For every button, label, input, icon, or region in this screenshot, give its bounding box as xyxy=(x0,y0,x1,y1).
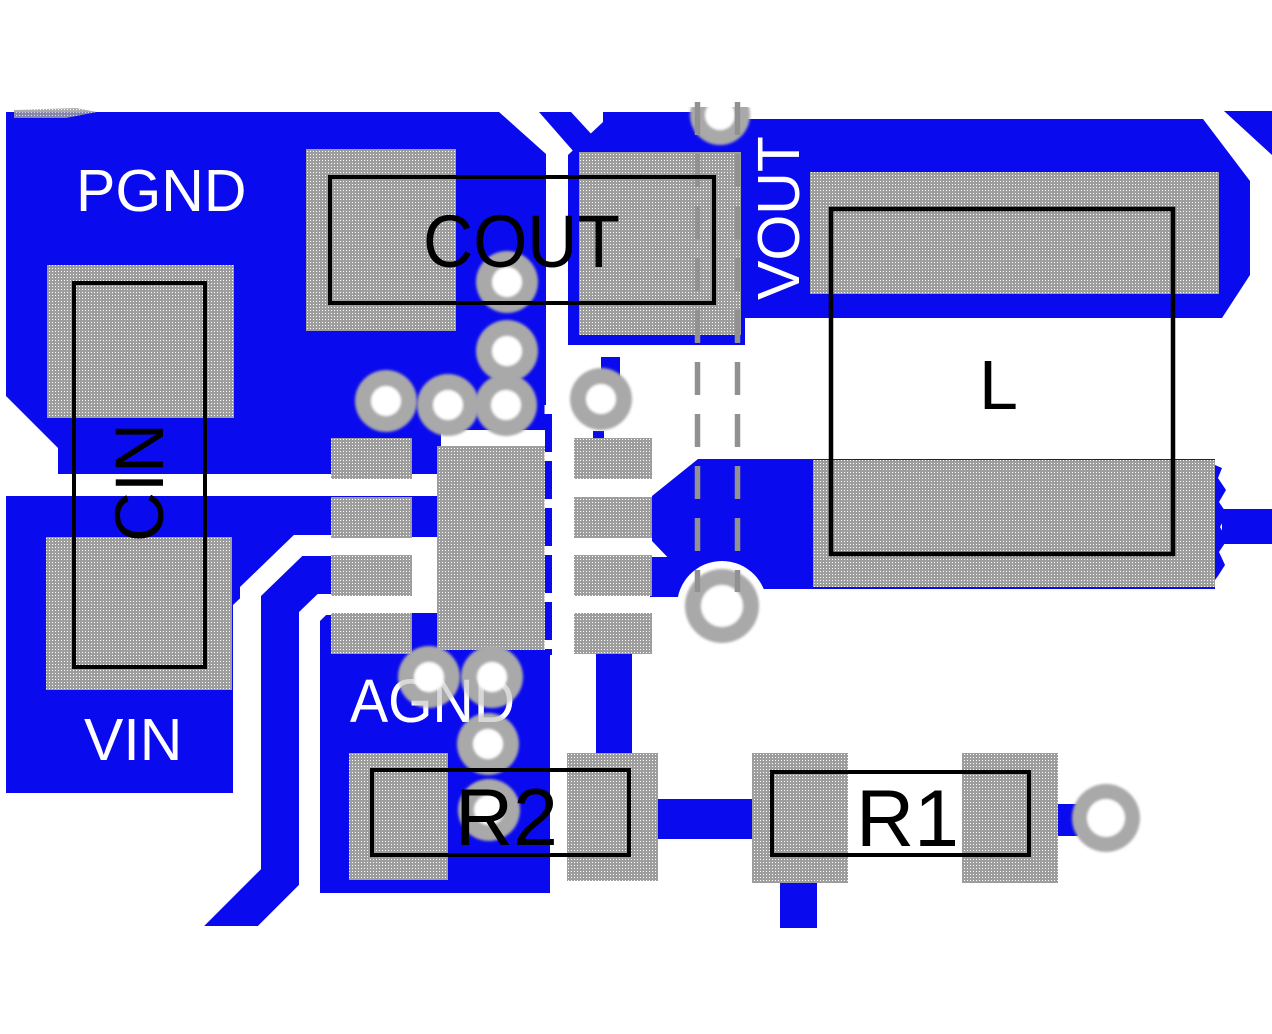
via at inductor xyxy=(685,569,759,643)
trim of VIN trace stub xyxy=(150,926,340,1026)
copper region VOUT to L bottom pad xyxy=(652,459,740,589)
via trio left xyxy=(355,370,417,432)
svg-text:R1: R1 xyxy=(856,774,959,864)
via right of IC xyxy=(570,368,632,430)
wire: mid strip right of IC center pad xyxy=(545,408,552,655)
IC U1 center thermal pad xyxy=(437,446,545,650)
resistor R2 pad right xyxy=(567,753,658,881)
wire: small stub near via V7 xyxy=(601,357,620,380)
inductor L pad bottom xyxy=(813,460,1215,587)
via trio mid xyxy=(417,374,479,436)
copper band under L bottom pad xyxy=(738,459,1215,589)
copper blob behind top via xyxy=(700,106,745,158)
svg-text:PGND: PGND xyxy=(76,158,246,224)
resistor R2 pad left xyxy=(349,753,448,880)
wire: small stub below via V7 xyxy=(593,431,604,441)
resistor R1 outline xyxy=(772,772,1029,855)
copper pour VOUT band (top-right) xyxy=(742,119,1250,318)
via AGND pair left xyxy=(398,646,460,708)
IC U1 pad left row2 xyxy=(331,497,412,538)
copper pour VIN (lower-left) xyxy=(6,485,441,793)
capacitor CIN pad upper xyxy=(47,265,234,418)
teeth on L bottom pad right edge xyxy=(1215,465,1227,580)
resistor R1 pad left xyxy=(752,753,848,883)
svg-text:AGND: AGND xyxy=(350,667,515,735)
svg-text:VOUT: VOUT xyxy=(746,136,812,300)
capacitor CIN pad lower xyxy=(46,537,232,690)
wire: L bottom pad stub to right edge xyxy=(1222,509,1272,544)
pad sliver top-left edge xyxy=(14,108,97,118)
dashed annotation line left xyxy=(695,102,701,592)
via AGND pair right xyxy=(461,646,523,708)
clearance gap IC rows 2-3 xyxy=(412,537,441,555)
via trio right xyxy=(475,374,537,436)
svg-text:VIN: VIN xyxy=(84,707,182,773)
capacitor COUT pad left xyxy=(306,149,456,331)
clearance circle around inductor via xyxy=(677,561,767,651)
capacitor CIN outline xyxy=(74,283,205,667)
wire: R1 right pad to via xyxy=(1058,804,1078,836)
clearance channel CIN gap xyxy=(0,474,441,496)
via chain upper 1 xyxy=(476,251,538,313)
svg-text:COUT: COUT xyxy=(423,200,620,283)
IC U1 pad left row1 xyxy=(331,438,412,479)
wire: IC row4 to R2 right pad xyxy=(596,651,632,759)
via AGND lower 1 xyxy=(457,713,519,775)
via right of R1 xyxy=(1072,784,1140,852)
svg-text:L: L xyxy=(979,346,1018,424)
svg-text:CIN: CIN xyxy=(101,423,178,542)
capacitor COUT outline xyxy=(330,177,714,303)
IC U1 pad right row1 xyxy=(574,438,652,479)
inductor L outline xyxy=(831,209,1173,554)
svg-text:R2: R2 xyxy=(455,773,558,863)
IC U1 pad right row4 xyxy=(574,613,652,654)
copper pour PGND (top-left) xyxy=(6,112,546,485)
wire: R2 to R1 xyxy=(658,799,754,839)
copper pour AGND column 2 xyxy=(412,613,437,658)
dashed annotation line right xyxy=(735,102,741,592)
via top near VOUT xyxy=(690,85,750,145)
copper pour AGND xyxy=(316,597,332,657)
IC U1 pad right row2 xyxy=(574,497,652,538)
wire: R1 left pad stub down xyxy=(780,883,817,928)
capacitor COUT pad right xyxy=(579,152,741,335)
IC U1 pad left row3 xyxy=(331,555,412,596)
inductor L pad top xyxy=(810,172,1219,294)
IC U1 pad right row3 xyxy=(574,555,652,596)
wire: IC pin row2 to VOUT region xyxy=(652,496,702,541)
copper wedge top-right corner xyxy=(1224,111,1272,155)
wire: top feed trace between pours xyxy=(539,112,606,152)
resistor R2 outline xyxy=(372,770,629,855)
via chain upper 2 xyxy=(476,320,538,382)
copper region around COUT right pad xyxy=(568,112,745,345)
via AGND lower 2 xyxy=(458,779,520,841)
IC U1 pad left row4 xyxy=(331,613,412,654)
clearance dashes on mid strip xyxy=(545,405,553,655)
wire: IC pin row3 to via xyxy=(650,557,710,597)
copper pour AGND main xyxy=(316,648,550,893)
wire trace VIN-to-bottom with clearance casing xyxy=(200,575,345,957)
resistor R1 pad right xyxy=(962,753,1058,883)
